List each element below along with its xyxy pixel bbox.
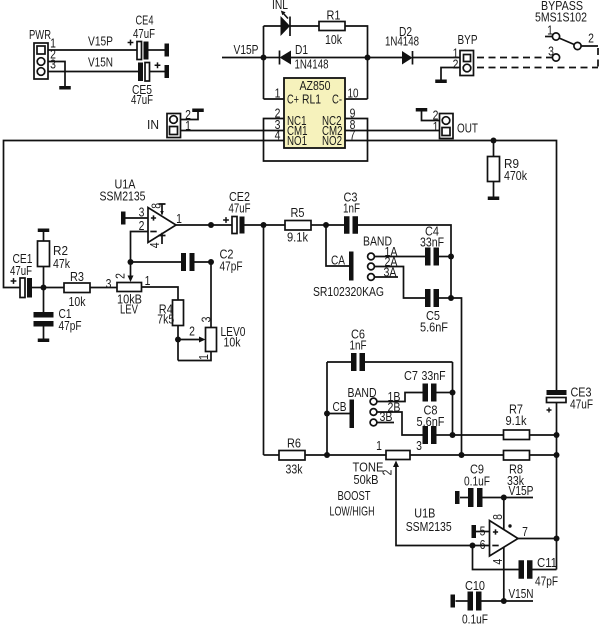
capacitor CE2 47uF (223, 189, 263, 234)
svg-text:CB: CB (333, 399, 347, 414)
resistor R5 9.1k (264, 205, 327, 245)
svg-text:3: 3 (106, 276, 112, 291)
svg-text:9.1k: 9.1k (287, 230, 308, 245)
junction (501, 598, 507, 604)
svg-text:33nF: 33nF (422, 368, 446, 383)
ground (451, 595, 456, 608)
junction (491, 138, 497, 144)
junction (554, 432, 560, 438)
wire LEV pin1 to R4 (142, 287, 179, 300)
wire (263, 26, 265, 99)
svg-text:2: 2 (588, 31, 594, 46)
svg-text:8: 8 (148, 203, 163, 209)
svg-text:V15P: V15P (234, 42, 259, 57)
op-amp U1B SSM2135 (406, 506, 528, 565)
capacitor C2 47pF (131, 247, 243, 274)
svg-text:0.1uF: 0.1uF (464, 474, 490, 489)
wire C6 branch (326, 362, 328, 455)
switch BYPASS 5MS1S102 (535, 0, 598, 61)
svg-text:C+: C+ (287, 92, 299, 107)
capacitor C9 0.1uF (460, 462, 533, 508)
svg-text:33k: 33k (286, 462, 303, 477)
capacitor C6 1nF (327, 327, 453, 372)
svg-text:OUT: OUT (457, 121, 478, 136)
svg-text:7k5: 7k5 (157, 312, 174, 327)
svg-text:8: 8 (490, 514, 505, 520)
capacitor C8 5.6nF (417, 403, 453, 444)
svg-text:3: 3 (50, 57, 56, 72)
wire U1B pin8 (503, 498, 505, 530)
svg-text:33nF: 33nF (420, 235, 444, 250)
wire (450, 257, 452, 299)
wire net V15P (48, 49, 137, 51)
svg-text:INL: INL (272, 0, 288, 12)
wire CB 2B to C8 (377, 412, 423, 435)
svg-text:470k: 470k (504, 168, 527, 183)
svg-text:CA: CA (331, 252, 345, 267)
connector IN (147, 107, 191, 138)
resistor R7 9.1k (504, 402, 557, 440)
capacitor C1 47pF (34, 288, 82, 339)
capacitor C7 33nF (404, 368, 453, 402)
svg-text:V15P: V15P (88, 34, 113, 49)
wire BYP pin2 to ground (441, 68, 460, 80)
capacitor C10 0.1uF (456, 578, 534, 625)
capacitor CE4 47uF (128, 13, 165, 60)
svg-text:50kB: 50kB (354, 472, 379, 487)
svg-text:9.1k: 9.1k (506, 413, 527, 428)
switch CA SR102320KAG (313, 225, 398, 299)
svg-text:2: 2 (453, 57, 459, 72)
svg-text:47uF: 47uF (133, 26, 155, 41)
svg-text:R3: R3 (70, 269, 84, 284)
junction (554, 536, 560, 542)
resistor R4 7k5 (157, 300, 183, 327)
LED INL (272, 0, 290, 36)
ground (U1A pin3) (121, 212, 126, 225)
svg-text:R1: R1 (327, 8, 341, 23)
wire CA 3A stub (375, 276, 399, 278)
svg-text:10k: 10k (224, 335, 241, 350)
ground (165, 65, 170, 78)
wire U1A pin3 (126, 217, 149, 219)
svg-text:1N4148: 1N4148 (295, 57, 329, 72)
svg-text:C-: C- (332, 92, 342, 107)
ground (165, 44, 170, 57)
svg-text:4: 4 (490, 559, 505, 565)
op-amp U1A SSM2135 (100, 177, 177, 249)
connector OUT (433, 108, 478, 139)
svg-text:V15N: V15N (509, 586, 534, 601)
wire OUT pin2 to ground (422, 112, 440, 121)
svg-text:10k: 10k (69, 294, 86, 309)
svg-text:BOOST: BOOST (338, 488, 371, 503)
wire relay pin2 NC1 to pin9 NC2 loop (264, 119, 368, 162)
resistor R6 33k (264, 436, 328, 477)
wire (264, 25, 281, 27)
svg-text:47k: 47k (53, 256, 70, 271)
svg-text:BYP: BYP (458, 32, 478, 47)
svg-text:2: 2 (189, 324, 195, 339)
svg-text:47uF: 47uF (10, 263, 32, 278)
wire U1A output pin1 (176, 224, 232, 226)
svg-text:2: 2 (113, 273, 128, 279)
wire relay pin1 C+ (264, 98, 285, 100)
wire CB 1B to C7 (377, 393, 423, 402)
junction (208, 222, 214, 228)
resistor R3 10k (44, 269, 118, 309)
resistor R9 470k (488, 141, 528, 197)
junction (128, 259, 134, 265)
wire V15P feed (222, 57, 264, 59)
junction node A (41, 285, 47, 291)
wire U1B pin4 (503, 548, 505, 602)
junction (450, 432, 456, 438)
wire C5 node to TONE line (451, 298, 462, 455)
svg-text:D1: D1 (295, 42, 308, 57)
capacitor C5 5.6nF (420, 289, 451, 335)
wire LEV0 wiper (178, 324, 206, 343)
wire CA 2A to C5 (375, 267, 426, 299)
svg-text:5MS1S102: 5MS1S102 (535, 10, 587, 25)
svg-text:5.6nF: 5.6nF (420, 320, 448, 335)
svg-text:LOW/HIGH: LOW/HIGH (330, 504, 375, 519)
svg-text:6: 6 (480, 537, 486, 552)
svg-text:LEV: LEV (120, 302, 138, 317)
ground (38, 339, 50, 343)
capacitor CE5 47uF (131, 62, 165, 106)
junction (208, 259, 214, 265)
svg-text:R5: R5 (291, 205, 305, 220)
junction (448, 254, 454, 260)
ground (59, 86, 71, 90)
junction (324, 411, 330, 417)
wire U1B pin6 (473, 545, 490, 547)
svg-text:10k: 10k (325, 32, 342, 47)
junction (470, 543, 476, 549)
svg-text:0.1uF: 0.1uF (462, 612, 488, 625)
connector BYP (453, 32, 478, 76)
capacitor CE1 47uF (10, 251, 44, 298)
capacitor C3 1nF (326, 190, 451, 257)
ground (U1B pin5) (472, 525, 477, 538)
svg-text:1nF: 1nF (343, 201, 360, 216)
trimmer LEV0 10k (178, 262, 246, 361)
wire relay pin10 C- (345, 98, 368, 100)
ground (192, 109, 204, 113)
svg-text:C7: C7 (404, 368, 418, 383)
wire PWR pin2 to ground (48, 62, 65, 87)
ground (455, 491, 460, 504)
svg-text:3: 3 (416, 438, 422, 453)
svg-text:1: 1 (145, 273, 151, 288)
svg-text:SSM2135: SSM2135 (100, 189, 146, 204)
junction (261, 222, 267, 228)
wire U1B output pin7 (518, 538, 557, 540)
junction (324, 452, 330, 458)
junction (365, 55, 371, 61)
svg-text:NO2: NO2 (322, 133, 342, 148)
wire relay NO1 to CE1 (4, 141, 285, 288)
svg-text:SSM2135: SSM2135 (406, 519, 452, 534)
wire R4 bottom (177, 326, 179, 361)
capacitor C11 47pF (473, 546, 559, 589)
wire net V15N (48, 71, 138, 73)
svg-text:C11: C11 (537, 555, 557, 570)
svg-text:4: 4 (147, 242, 162, 248)
wire CB 3B stub (377, 422, 394, 424)
wire relay CM2 to OUT pin1 (345, 130, 440, 132)
svg-text:IN: IN (147, 117, 159, 132)
svg-text:V15P: V15P (509, 483, 534, 498)
junction (459, 452, 465, 458)
wire (dashed) BYP pin2 to switch pin2 (477, 67, 598, 69)
wire IN pin1 to relay CM1 (181, 130, 285, 132)
svg-text:47uF: 47uF (570, 397, 593, 412)
svg-text:47uF: 47uF (131, 92, 153, 107)
ground (38, 229, 50, 233)
wire U1A pin2 (131, 232, 149, 263)
resistor R2 47k (38, 232, 71, 288)
wire (290, 25, 319, 27)
junction (261, 55, 267, 61)
svg-text:RL1: RL1 (302, 92, 321, 107)
ground (488, 197, 500, 201)
relay pin number labels (275, 86, 359, 143)
svg-text:1: 1 (196, 354, 211, 360)
wire IN pin2 to ground (181, 112, 199, 120)
wire CA 1A to C4 (375, 256, 426, 258)
svg-text:C10: C10 (465, 578, 485, 593)
connector PWR (29, 27, 56, 79)
svg-text:R6: R6 (287, 436, 301, 451)
diode D2 1N4148 (368, 24, 461, 65)
switch CB (327, 385, 401, 428)
svg-text:1N4148: 1N4148 (385, 34, 419, 49)
svg-text:7: 7 (522, 524, 528, 539)
wire relay NO2 to output rail (345, 141, 557, 391)
wire C8 node to R7 (453, 434, 504, 436)
wire (dashed) BYP pin1 to switch pin3 (477, 57, 552, 59)
svg-text:47pF: 47pF (535, 574, 558, 589)
resistor R8 33k (462, 451, 557, 489)
diode D1 1N4148 (264, 42, 368, 72)
wire (345, 26, 368, 99)
wire (452, 362, 454, 435)
svg-text:1nF: 1nF (350, 338, 367, 353)
svg-text:SR102320KAG: SR102320KAG (313, 284, 384, 299)
capacitor C4 33nF (420, 224, 451, 266)
svg-text:1: 1 (376, 438, 382, 453)
svg-text:47pF: 47pF (59, 318, 82, 333)
wire output rail (556, 435, 558, 570)
junction (323, 222, 329, 228)
svg-text:47pF: 47pF (220, 259, 243, 274)
potentiometer LEV 10kB (106, 262, 151, 317)
ground (435, 80, 447, 84)
relay RL1 AZ850 (284, 78, 345, 148)
svg-text:5.6nF: 5.6nF (417, 414, 445, 429)
junction (448, 295, 454, 301)
resistor R1 10k (319, 8, 345, 48)
svg-text:47uF: 47uF (229, 201, 251, 216)
wire U1B pin5 (476, 531, 490, 533)
wire CE2 node down to R6 (263, 225, 265, 455)
junction (175, 337, 181, 343)
junction (501, 495, 507, 501)
ground (416, 108, 428, 112)
svg-text:NO1: NO1 (287, 133, 307, 148)
svg-text:1: 1 (176, 211, 182, 226)
svg-text:PWR: PWR (29, 27, 51, 42)
capacitor CE3 47uF (547, 385, 594, 436)
svg-text:3: 3 (199, 317, 214, 323)
potentiometer TONE 50kB (327, 438, 473, 546)
junction (554, 452, 560, 458)
junction (450, 390, 456, 396)
svg-text:V15N: V15N (88, 55, 113, 70)
